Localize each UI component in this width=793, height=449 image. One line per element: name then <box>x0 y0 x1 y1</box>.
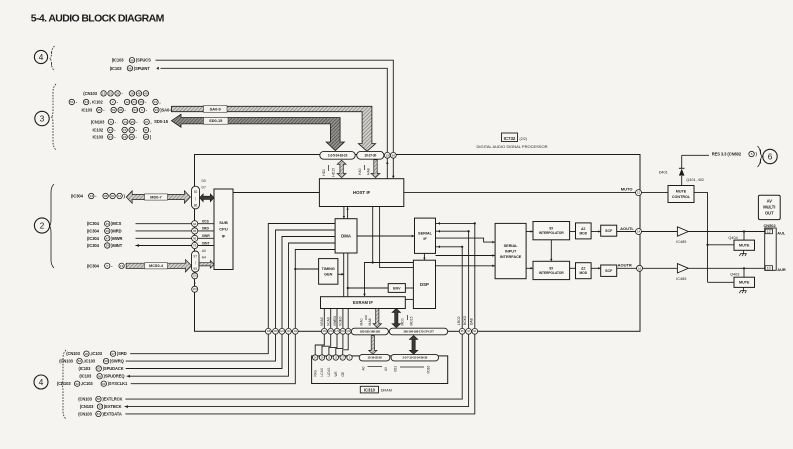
svg-text:,IC103: ,IC103 <box>83 359 95 364</box>
svg-text:OUT: OUT <box>765 211 774 216</box>
bus arrow A0-A4 into SUB CPU IF <box>199 260 214 268</box>
svg-text:)SPUDREQ: )SPUDREQ <box>104 374 126 379</box>
svg-text:SERIAL: SERIAL <box>504 244 519 248</box>
svg-text:)MRD: )MRD <box>111 228 121 233</box>
svg-text:47: 47 <box>106 236 110 240</box>
svg-text:OE: OE <box>341 372 345 377</box>
wire HOST IF to DMA 2 <box>347 207 349 219</box>
wire DRAM ctrl 3 <box>329 334 337 355</box>
svg-text:97: 97 <box>145 120 149 124</box>
svg-text:A0: A0 <box>202 249 206 253</box>
svg-text:86: 86 <box>97 397 101 401</box>
pin 79 <box>192 242 198 248</box>
svg-text:HD15: HD15 <box>332 168 336 177</box>
svg-text:15: 15 <box>109 92 113 96</box>
svg-text:MUTE: MUTE <box>739 281 750 285</box>
svg-text:96: 96 <box>193 236 197 240</box>
svg-text:AUR: AUR <box>777 267 786 272</box>
svg-text:D7: D7 <box>202 186 206 190</box>
svg-text:(CN103: (CN103 <box>59 359 73 364</box>
svg-text:TIMING: TIMING <box>322 267 335 271</box>
pin 103 <box>192 286 198 292</box>
svg-text:3: 3 <box>40 114 45 123</box>
wire HOST IF to DMA 1 <box>343 207 345 219</box>
wire IC485 L to CN502 <box>688 231 765 233</box>
svg-text:98: 98 <box>104 359 108 363</box>
svg-text:33: 33 <box>90 194 94 198</box>
svg-text:95: 95 <box>193 229 197 233</box>
svg-text:17: 17 <box>130 128 134 132</box>
DRAM pin 28 <box>326 355 331 360</box>
svg-text:)SWRQ: )SWRQ <box>110 359 125 364</box>
svg-text:WE: WE <box>334 371 338 376</box>
svg-text:ΔΣ: ΔΣ <box>581 227 585 231</box>
pin 182 XRAS group <box>347 309 349 329</box>
svg-text:94: 94 <box>193 222 197 226</box>
wire DMA fan 1 <box>268 224 335 329</box>
svg-text:CONTROL: CONTROL <box>672 195 691 199</box>
svg-text:12: 12 <box>125 100 129 104</box>
svg-text:AOUTR: AOUTR <box>618 263 632 268</box>
svg-text:MA0: MA0 <box>360 318 364 325</box>
wire bottom row y368.5 <box>126 334 282 368</box>
pin 101 <box>192 273 198 279</box>
svg-text:(CN103: (CN103 <box>83 91 97 96</box>
pin 94 <box>192 221 198 227</box>
DRAM pin 27 <box>340 355 345 360</box>
svg-text:183-185-188-193: 183-185-188-193 <box>360 330 381 334</box>
pin AOUTL <box>636 229 642 235</box>
wire DMA to EXRAM IF 2 <box>347 253 349 297</box>
svg-text:54: 54 <box>70 100 74 104</box>
pin MUTO <box>636 190 642 196</box>
svg-text:ΔΣ: ΔΣ <box>581 267 585 271</box>
wire DMA fan 4 <box>289 243 336 328</box>
wire SPUCS <box>156 60 394 152</box>
block EXRAM IF <box>321 297 406 309</box>
pin pill 1-2-5-14-16-19 <box>320 151 355 159</box>
svg-text:31: 31 <box>154 100 158 104</box>
svg-text:HA8: HA8 <box>367 168 371 175</box>
svg-text:XOEO: XOEO <box>339 316 343 326</box>
op-amp IC485 R <box>643 267 678 269</box>
wire DRAM ctrl 1 <box>315 334 324 355</box>
svg-text:HA0: HA0 <box>358 168 362 175</box>
block 8X INTERPOLATOR R <box>533 261 570 279</box>
wire ENV branch <box>348 287 388 289</box>
svg-text:, IC102: , IC102 <box>90 99 103 104</box>
section marker 4 (top) <box>34 50 47 63</box>
svg-text:XRD: XRD <box>202 227 210 231</box>
svg-text:98: 98 <box>144 135 148 139</box>
wire HOST IF to MUTO pin <box>404 192 636 194</box>
bus SD0-15 <box>172 114 345 150</box>
svg-text:IC732: IC732 <box>504 136 516 141</box>
junction dot on left edge <box>194 282 196 284</box>
svg-text:86: 86 <box>194 204 198 208</box>
wire SUB CPU IF to HOST IF <box>233 192 319 194</box>
svg-text:INTERPOLATOR: INTERPOLATOR <box>539 231 565 235</box>
svg-text:IF: IF <box>222 233 226 238</box>
block MUTE R <box>734 277 755 287</box>
svg-text:12: 12 <box>767 230 771 234</box>
svg-text:IC103: IC103 <box>93 134 104 139</box>
label IC310 DRAM <box>360 386 378 393</box>
svg-text:D401: D401 <box>659 171 668 175</box>
svg-text:A9: A9 <box>384 367 388 371</box>
svg-text:XINT: XINT <box>202 241 211 245</box>
pin 96 <box>192 235 198 241</box>
block AV MULTI OUT <box>758 195 780 219</box>
svg-text:(2/2): (2/2) <box>520 137 527 141</box>
svg-text:98: 98 <box>130 58 134 62</box>
wire SERIAL IF to DSP <box>423 253 425 260</box>
svg-text:A0: A0 <box>362 366 366 370</box>
svg-text:SD0-15: SD0-15 <box>209 118 223 123</box>
svg-text:HOST IF: HOST IF <box>353 190 371 195</box>
svg-text:SD0-15: SD0-15 <box>154 119 169 124</box>
svg-text:99: 99 <box>193 267 197 271</box>
svg-text:I/O16: I/O16 <box>427 365 431 373</box>
pin 12 AUL <box>765 229 772 234</box>
wire mute tap R <box>708 281 735 283</box>
pin 19 <box>384 152 390 158</box>
wire HOST IF to EXRAM/DSP V1 <box>365 207 373 297</box>
svg-text:)SRD: )SRD <box>117 351 127 356</box>
svg-text:(IC304: (IC304 <box>87 228 100 233</box>
svg-text:(IC103: (IC103 <box>110 66 123 71</box>
svg-text:25: 25 <box>116 92 120 96</box>
wire to TIMING GEN <box>295 268 318 270</box>
bus arrow MA0-MA8 to pins <box>373 309 381 328</box>
bus arrow MA to DRAM <box>369 336 377 355</box>
wire 8X to DS MOD R <box>570 267 576 269</box>
pin 151 XRAS group <box>323 309 325 329</box>
svg-text:MCS0-4: MCS0-4 <box>149 264 164 268</box>
svg-text:IC103: IC103 <box>82 107 93 112</box>
bus arrow HA0-HA8 <box>371 160 380 178</box>
pin pill 20-27-30 <box>357 151 384 159</box>
svg-text:UCAS: UCAS <box>327 368 331 377</box>
wire DSP to SERIAL INPUT INTERFACE 2 <box>436 265 496 267</box>
block HOST IF <box>319 179 403 207</box>
svg-text:(CN103: (CN103 <box>66 351 80 356</box>
svg-text:94: 94 <box>133 108 137 112</box>
svg-text:16: 16 <box>638 266 642 270</box>
svg-text:(IC304: (IC304 <box>87 236 100 241</box>
wire MUTO to MUTE CONTROL <box>642 192 669 194</box>
svg-text:XCAS: XCAS <box>327 316 331 326</box>
wire IC485 R to CN502 <box>688 267 765 269</box>
svg-text:13: 13 <box>120 264 124 268</box>
svg-text:SA0-9: SA0-9 <box>210 106 222 111</box>
block DSP <box>413 260 435 308</box>
svg-text:13: 13 <box>124 120 128 124</box>
svg-text:35: 35 <box>119 108 123 112</box>
svg-text:EXRAM IF: EXRAM IF <box>353 300 373 305</box>
svg-text:32: 32 <box>75 382 79 386</box>
svg-text:MUTO: MUTO <box>621 187 633 192</box>
svg-text:46: 46 <box>106 229 110 233</box>
ground MUTE L <box>739 254 746 257</box>
svg-text:Q403: Q403 <box>730 272 739 276</box>
block delta-sigma MOD L <box>576 223 592 239</box>
svg-text:90: 90 <box>392 153 396 157</box>
svg-text:30: 30 <box>85 352 89 356</box>
svg-text:93: 93 <box>155 108 159 112</box>
svg-text:15: 15 <box>123 135 127 139</box>
bus SA0-9 <box>172 106 376 151</box>
pin pill 97-99 <box>192 251 200 272</box>
wire SERIAL IF line 3 <box>436 246 463 248</box>
svg-text:(CN103: (CN103 <box>80 404 94 409</box>
svg-text:DRAM: DRAM <box>381 389 392 393</box>
wire bottom row y353.7 <box>130 334 268 354</box>
wire TIMING GEN to vertical <box>338 273 344 275</box>
svg-text:,IC103: ,IC103 <box>81 381 93 386</box>
svg-text:RES 3.3 (CN602: RES 3.3 (CN602 <box>712 151 742 156</box>
svg-text:96: 96 <box>128 66 132 70</box>
svg-text:SUB: SUB <box>219 220 228 225</box>
svg-text:CN502: CN502 <box>764 223 777 228</box>
svg-text:DIGITAL AUDIO SIGNAL PROCESSOR: DIGITAL AUDIO SIGNAL PROCESSOR <box>477 144 548 149</box>
svg-text:6: 6 <box>768 152 773 161</box>
svg-text:87: 87 <box>97 412 101 416</box>
wire SCF to AOUTR pin <box>617 267 637 269</box>
IC732 DSP outer block <box>195 155 641 332</box>
svg-text:MA8: MA8 <box>368 318 372 325</box>
svg-text:MD0: MD0 <box>401 318 405 325</box>
wire DRAM ctrl 2 <box>322 334 331 355</box>
svg-text:)EXTLRCK: )EXTLRCK <box>102 397 122 402</box>
svg-text:IC485: IC485 <box>676 240 686 244</box>
svg-text:(CN103: (CN103 <box>57 381 71 386</box>
wire vertical BCKO <box>468 231 470 328</box>
wire SERIAL IF line 2 <box>436 230 469 232</box>
bus arrow MD0-MD15 to pins <box>392 309 400 328</box>
wire HOST IF to DSP V2 <box>380 207 414 268</box>
svg-text:MOD: MOD <box>579 231 587 235</box>
svg-text:AOUTL: AOUTL <box>620 226 634 231</box>
svg-text:53: 53 <box>84 100 88 104</box>
svg-text:IC102: IC102 <box>93 127 104 132</box>
svg-text:)MCS: )MCS <box>111 221 121 226</box>
svg-text:MUTE: MUTE <box>739 243 750 247</box>
svg-text:)SPUINT: )SPUINT <box>134 66 150 71</box>
svg-text:(IC304: (IC304 <box>87 263 100 268</box>
pin AOUTR <box>637 265 643 271</box>
svg-text:I/O1: I/O1 <box>394 366 398 372</box>
wire DRAM ctrl 5 <box>343 334 349 355</box>
wire DMA fan 2 <box>276 230 336 328</box>
wire DS MOD to SCF L <box>591 231 601 233</box>
svg-text:MULTI: MULTI <box>763 205 775 210</box>
svg-text:4: 4 <box>39 378 44 387</box>
svg-text:D0: D0 <box>202 179 206 183</box>
pin pill DRAM A 15-19-22-26 <box>359 354 390 361</box>
pin 114 bottom left group <box>292 328 298 334</box>
wire bottom row y406.6 <box>125 334 469 406</box>
pin 95 serial out group <box>459 328 465 334</box>
svg-text:Q404: Q404 <box>728 236 737 240</box>
svg-text:BCKO: BCKO <box>463 315 467 325</box>
DRAM pin 13 <box>333 355 338 360</box>
wire MUTE CONTROL output <box>694 193 708 283</box>
svg-text:MOD: MOD <box>579 271 587 275</box>
svg-text:33: 33 <box>98 405 102 409</box>
pin pill 160-164-166-172-174-177 <box>389 328 447 335</box>
wire SII to 8X INTERPOLATOR L <box>526 231 533 233</box>
section marker 2 <box>34 218 49 233</box>
block SERIAL IF <box>415 218 436 253</box>
block ENV <box>388 284 405 293</box>
svg-text:)SPUDACK: )SPUDACK <box>103 366 124 371</box>
junction to MUTE L <box>743 230 745 232</box>
pin pill 183-185-188-193 <box>351 328 388 335</box>
svg-text:ENV: ENV <box>393 286 401 290</box>
pin 90 <box>390 152 396 158</box>
svg-text:101: 101 <box>193 275 198 278</box>
svg-text:DAB: DAB <box>469 317 473 325</box>
wire SII to 8X INTERPOLATOR R <box>526 267 533 269</box>
svg-text:AUL: AUL <box>777 230 786 235</box>
wire SPUINT <box>161 68 388 152</box>
label IC102 pins row 2 <box>69 99 74 104</box>
svg-text:XWED: XWED <box>333 315 337 326</box>
pin 96 serial out group <box>472 328 478 334</box>
svg-text:25: 25 <box>139 100 143 104</box>
svg-text:MUTE: MUTE <box>676 190 687 194</box>
svg-text:)EXTBCK: )EXTBCK <box>104 404 122 409</box>
pin 121 bottom left group <box>279 328 285 334</box>
svg-text:20-27-30: 20-27-30 <box>364 153 376 157</box>
svg-text:15: 15 <box>123 128 127 132</box>
svg-text:Q401, 402: Q401, 402 <box>686 178 704 182</box>
wire bottom row y399.1 <box>125 334 462 399</box>
svg-text:LRO2: LRO2 <box>457 316 461 325</box>
wire EXRAM IF to DSP <box>405 298 413 300</box>
svg-text:GEN: GEN <box>324 273 332 277</box>
wire DMA to EXRAM IF 1 <box>343 253 345 297</box>
section marker 4 (bottom) <box>34 375 48 389</box>
section marker 3 <box>35 111 49 125</box>
wire DMA fan 5 <box>295 250 335 329</box>
block SUB CPU IF <box>214 189 233 270</box>
pin 179 XRAS group <box>336 309 338 329</box>
svg-text:21: 21 <box>132 100 136 104</box>
op-amp IC485 L <box>642 231 678 233</box>
wire vertical LRO2 <box>461 247 463 329</box>
svg-text:MD0-7: MD0-7 <box>150 195 161 199</box>
svg-text:AV: AV <box>767 199 773 204</box>
wire DRAM ctrl 4 <box>336 334 343 355</box>
svg-text:4: 4 <box>39 53 44 62</box>
wire bottom row y413.9 <box>125 334 474 414</box>
wire DMA to SERIAL IF <box>357 235 415 237</box>
svg-text:A4: A4 <box>202 256 206 260</box>
svg-text:,: , <box>151 119 152 124</box>
bus arrow MD to DRAM <box>409 336 417 355</box>
svg-text:28: 28 <box>130 92 134 96</box>
svg-text:98: 98 <box>98 374 102 378</box>
block DMA <box>335 219 357 253</box>
svg-text:38: 38 <box>104 194 108 198</box>
svg-text:HD0: HD0 <box>322 169 326 176</box>
svg-text:87: 87 <box>97 367 101 371</box>
svg-text:19: 19 <box>386 153 390 157</box>
ground MUTE R <box>739 291 746 294</box>
svg-text:SCF: SCF <box>605 269 613 273</box>
svg-text:(IC103: (IC103 <box>79 366 92 371</box>
svg-text:103: 103 <box>193 288 198 291</box>
svg-text:INTERPOLATOR: INTERPOLATOR <box>539 271 565 275</box>
svg-text:2-5-7-10-31-34-36-39: 2-5-7-10-31-34-36-39 <box>402 356 427 360</box>
block delta-sigma MOD R <box>576 263 592 279</box>
svg-text:INTERFACE: INTERFACE <box>500 255 522 259</box>
wire ENV to DSP <box>405 287 413 289</box>
wire DMA fan 3 <box>282 237 335 329</box>
svg-text:DSP: DSP <box>420 282 429 287</box>
svg-text:)EXTDATA: )EXTDATA <box>102 411 122 416</box>
svg-text:CPU: CPU <box>219 227 228 232</box>
block MUTE L <box>734 240 755 250</box>
svg-text:92: 92 <box>112 108 116 112</box>
DRAM pin 3 <box>347 355 352 360</box>
wire XINT <box>136 245 192 247</box>
svg-text:95: 95 <box>130 135 134 139</box>
svg-text:XCS: XCS <box>202 220 210 224</box>
svg-text:40: 40 <box>111 194 115 198</box>
junction to MUTE R <box>743 267 745 269</box>
wire bottom row y376.2 <box>127 334 289 376</box>
pin 120 bottom left group <box>273 328 279 334</box>
pin 118 bottom left group <box>265 328 271 334</box>
bus arrow D0-D7 <box>200 194 215 202</box>
wire interpolators link <box>550 240 552 261</box>
wire mute tap L <box>708 244 735 246</box>
svg-text:SERIAL: SERIAL <box>418 231 433 235</box>
svg-text:(IC304: (IC304 <box>71 193 84 198</box>
svg-text:,IC103: ,IC103 <box>90 351 102 356</box>
svg-text:48: 48 <box>137 92 141 96</box>
block MUTE CONTROL <box>668 186 694 203</box>
diode D401 <box>681 176 683 186</box>
pin pill DRAM IO 2-5-7-10-31-34-36-39 <box>391 354 439 361</box>
wire XWR <box>136 237 192 239</box>
wire vertical DAB <box>474 223 476 328</box>
wire SERIAL IF to SERIAL INPUT INTERFACE <box>436 238 496 242</box>
svg-text:MD15: MD15 <box>410 316 414 325</box>
svg-text:13: 13 <box>102 92 106 96</box>
svg-text:(IC103: (IC103 <box>112 58 125 63</box>
svg-text:(IC103: (IC103 <box>79 374 92 379</box>
label IC732 (2/2) DIGITAL AUDIO SIGNAL PROCESSOR <box>502 133 518 142</box>
svg-text:IC485: IC485 <box>676 277 686 281</box>
svg-text:)SPUCS: )SPUCS <box>136 58 151 63</box>
block 8X INTERPOLATOR L <box>533 222 570 240</box>
pin pill 92-86 <box>192 186 200 209</box>
svg-text:160-164-166-172-174-177: 160-164-166-172-174-177 <box>403 330 434 334</box>
svg-text:,: , <box>150 127 151 132</box>
svg-text:54: 54 <box>78 359 82 363</box>
svg-text:,: , <box>159 99 160 104</box>
block SCF R <box>601 265 617 276</box>
bus MCS0-4 <box>126 260 191 272</box>
svg-text:45: 45 <box>106 222 110 226</box>
section marker 6 <box>763 149 777 163</box>
pin 95 <box>192 228 198 234</box>
wire XRD <box>136 230 192 232</box>
